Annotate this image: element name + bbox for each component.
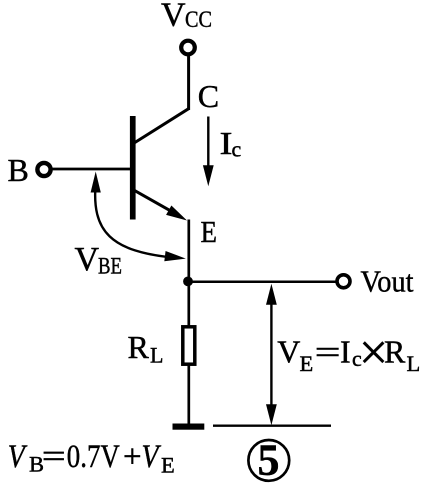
svg-text:R: R [384, 334, 406, 370]
label VE = Ic x RL [277, 325, 420, 382]
svg-text:V: V [161, 0, 186, 34]
terminal Vout [337, 275, 350, 288]
svg-text:L: L [407, 351, 421, 376]
label VB = 0.7V + VE [8, 439, 175, 478]
svg-text:BE: BE [98, 254, 122, 279]
svg-text:I: I [340, 334, 351, 370]
ground [173, 424, 205, 430]
current arrow Ic [203, 117, 214, 187]
svg-text:E: E [201, 214, 218, 249]
terminal B [37, 163, 50, 176]
label RL [128, 329, 164, 368]
resistor RL [183, 327, 195, 364]
svg-text:B: B [8, 152, 29, 188]
wire node to Vout [189, 280, 337, 283]
svg-text:=: = [315, 334, 341, 370]
svg-text:V: V [277, 334, 300, 370]
svg-text:+: + [123, 439, 142, 475]
wire resistor to ground [187, 365, 190, 424]
terminal VCC [181, 41, 195, 55]
svg-text:R: R [128, 329, 150, 365]
svg-text:E: E [300, 351, 314, 376]
svg-text:V: V [75, 241, 100, 278]
transistor Q1 emitter with arrow [134, 190, 187, 220]
node emitter junction [183, 277, 193, 287]
svg-text:C: C [198, 78, 219, 114]
svg-text:5: 5 [258, 435, 280, 484]
svg-text:c: c [232, 137, 242, 162]
wire base [51, 168, 131, 171]
label Ic [220, 125, 242, 162]
arc VBE with arrowheads [91, 172, 186, 262]
svg-text:CC: CC [185, 7, 212, 32]
wire collector diagonal [134, 109, 189, 144]
svg-text:=: = [42, 439, 66, 475]
reference line [213, 425, 331, 427]
wire VCC to collector corner [187, 56, 190, 110]
figure number 5 [248, 435, 289, 484]
arrow VE double-headed [266, 284, 277, 426]
transistor Q1 base bar [130, 116, 136, 220]
label VCC [161, 0, 212, 34]
wire emitter vertical [187, 220, 190, 327]
label VBE [75, 241, 123, 279]
svg-text:L: L [150, 343, 163, 368]
svg-text:E: E [161, 453, 175, 478]
svg-text:0.7V: 0.7V [67, 439, 120, 475]
svg-text:Vout: Vout [361, 264, 414, 299]
